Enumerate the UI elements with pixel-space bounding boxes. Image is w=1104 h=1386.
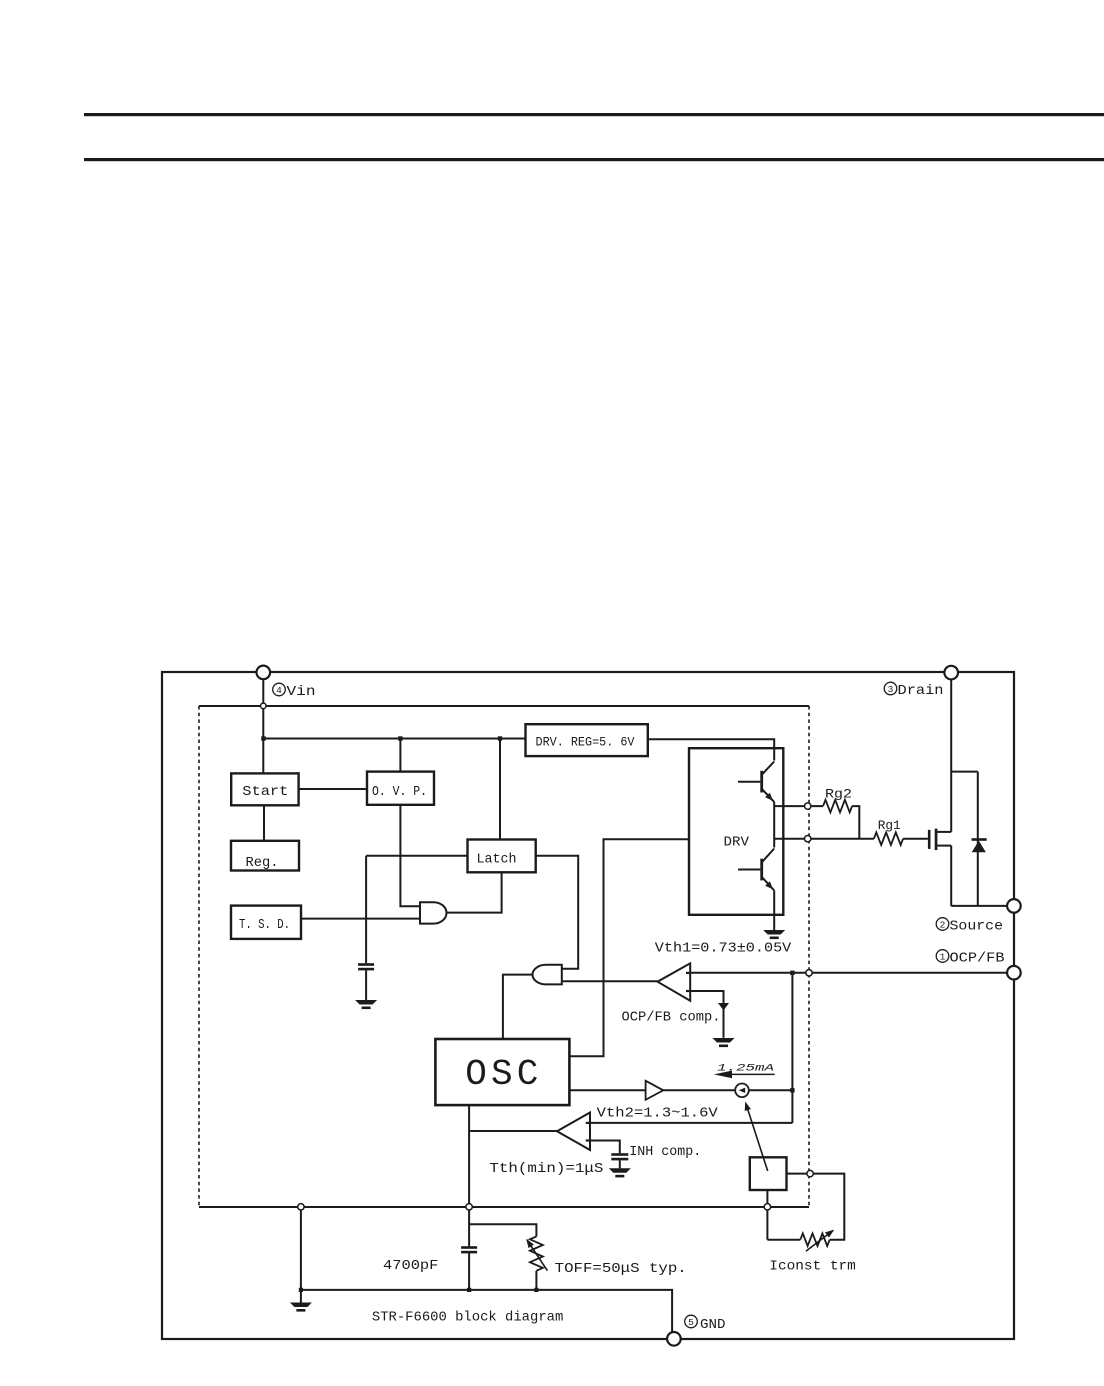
svg-text:4: 4: [276, 685, 282, 696]
svg-text:STR-F6600 block diagram: STR-F6600 block diagram: [372, 1310, 563, 1326]
svg-text:Vth1=0.73±0.05V: Vth1=0.73±0.05V: [655, 941, 792, 957]
svg-text:O. V. P.: O. V. P.: [372, 784, 427, 800]
svg-text:1: 1: [940, 952, 946, 963]
svg-text:4700pF: 4700pF: [383, 1258, 438, 1274]
svg-text:OCP/FB: OCP/FB: [950, 950, 1005, 966]
svg-text:Reg.: Reg.: [246, 855, 279, 871]
svg-text:OSC: OSC: [465, 1054, 538, 1095]
svg-text:Rg2: Rg2: [825, 787, 852, 802]
svg-text:Latch: Latch: [477, 852, 517, 868]
svg-text:Iconst trm: Iconst trm: [769, 1259, 856, 1275]
svg-text:5: 5: [688, 1317, 694, 1328]
svg-text:INH comp.: INH comp.: [629, 1144, 701, 1160]
svg-text:DRV: DRV: [724, 835, 750, 851]
svg-text:Vin: Vin: [287, 684, 316, 700]
svg-text:TOFF=50μS typ.: TOFF=50μS typ.: [555, 1261, 687, 1277]
svg-text:GND: GND: [700, 1317, 726, 1333]
svg-text:Drain: Drain: [898, 683, 944, 699]
svg-text:1.25mA: 1.25mA: [717, 1063, 774, 1075]
svg-text:OCP/FB comp.: OCP/FB comp.: [622, 1009, 721, 1025]
svg-text:Vth2=1.3~1.6V: Vth2=1.3~1.6V: [597, 1106, 719, 1122]
svg-text:DRV. REG=5. 6V: DRV. REG=5. 6V: [536, 735, 635, 750]
svg-text:3: 3: [888, 684, 894, 695]
svg-text:Source: Source: [950, 919, 1004, 935]
svg-text:2: 2: [940, 920, 946, 931]
svg-text:Tth(min)=1μS: Tth(min)=1μS: [489, 1161, 603, 1177]
svg-text:T. S. D.: T. S. D.: [239, 917, 290, 933]
svg-text:Rg1: Rg1: [878, 818, 901, 833]
svg-text:Start: Start: [242, 784, 288, 800]
